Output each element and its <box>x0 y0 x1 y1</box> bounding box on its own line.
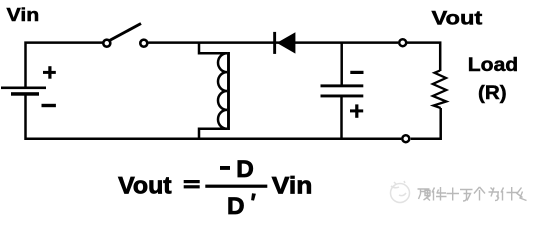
svg-text:D: D <box>236 156 254 183</box>
svg-text:Load: Load <box>468 55 518 76</box>
svg-text:(R): (R) <box>478 82 507 104</box>
svg-text:Vout: Vout <box>118 173 171 200</box>
svg-text:D: D <box>227 193 245 219</box>
svg-text:Vout: Vout <box>432 7 483 29</box>
svg-text:Vin: Vin <box>7 5 40 25</box>
svg-text:Vin: Vin <box>272 173 313 200</box>
